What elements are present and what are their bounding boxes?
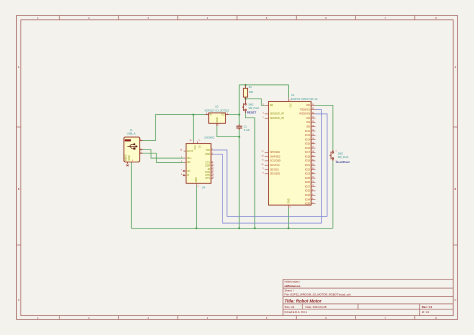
svg-text:VO: VO bbox=[221, 115, 225, 117]
svg-text:7: 7 bbox=[312, 202, 313, 204]
svg-text:Date: 2024-04-28: Date: 2024-04-28 bbox=[306, 305, 327, 309]
svg-text:SCK/CLK: SCK/CLK bbox=[270, 165, 280, 167]
svg-text:U2: U2 bbox=[215, 105, 219, 109]
wire USB D- to CH340C UD+ bbox=[143, 150, 184, 158]
svg-text:16: 16 bbox=[190, 140, 192, 142]
svg-text:14: 14 bbox=[212, 177, 214, 179]
svg-text:4: 4 bbox=[263, 113, 264, 115]
svg-text:10: 10 bbox=[262, 164, 264, 166]
svg-text:5: 5 bbox=[181, 157, 182, 159]
svg-text:GND: GND bbox=[288, 198, 290, 203]
svg-text:USB_A: USB_A bbox=[127, 132, 136, 136]
svg-text:XI: XI bbox=[187, 175, 190, 177]
svg-text:1: 1 bbox=[218, 125, 219, 127]
svg-text:IO15: IO15 bbox=[305, 144, 311, 146]
svg-text:0.1uF: 0.1uF bbox=[244, 129, 251, 132]
svg-text:26: 26 bbox=[312, 121, 314, 123]
title block bbox=[283, 279, 453, 315]
svg-text:3: 3 bbox=[263, 104, 264, 106]
svg-text:18: 18 bbox=[180, 150, 182, 152]
svg-text:IO18: IO18 bbox=[305, 157, 311, 159]
svg-text:Sheet: /: Sheet: / bbox=[285, 289, 295, 293]
svg-text:IO22: IO22 bbox=[305, 169, 311, 171]
svg-text:SENSOR_VP: SENSOR_VP bbox=[270, 114, 285, 116]
svg-text:31: 31 bbox=[312, 160, 314, 162]
svg-text:Title: Robot Motor: Title: Robot Motor bbox=[285, 299, 322, 304]
wire EN net jog to ESP32 bbox=[246, 99, 265, 106]
svg-text:33: 33 bbox=[312, 164, 314, 166]
svg-text:GND: GND bbox=[129, 155, 131, 160]
module U1 ESP32-WROOM-32 bbox=[262, 93, 318, 209]
svg-text:DSR: DSR bbox=[205, 166, 210, 168]
svg-text:IO19: IO19 bbox=[305, 161, 311, 163]
push button SW1 RESET bbox=[242, 99, 260, 115]
svg-text:37: 37 bbox=[312, 172, 314, 174]
svg-text:IO27: IO27 bbox=[305, 186, 311, 188]
wire boot switch to ground rail bbox=[332, 161, 334, 228]
svg-text:1: 1 bbox=[140, 139, 141, 141]
svg-text:KiCad E.D.A. 8.0.1: KiCad E.D.A. 8.0.1 bbox=[285, 310, 308, 314]
wire C1 bottom to ground rail bbox=[238, 129, 240, 229]
svg-text:initial project: initial project bbox=[285, 280, 300, 284]
svg-text:SWP/SD3: SWP/SD3 bbox=[270, 157, 281, 159]
wire IO0 to boot switch bbox=[315, 105, 333, 150]
svg-text:2: 2 bbox=[227, 113, 228, 115]
svg-text:11: 11 bbox=[312, 181, 314, 183]
svg-text:5: 5 bbox=[263, 117, 264, 119]
svg-text:6: 6 bbox=[181, 161, 182, 163]
svg-text:10: 10 bbox=[312, 177, 314, 179]
svg-text:uMamesse: uMamesse bbox=[285, 284, 301, 288]
push button SW2 Boot/Flash bbox=[330, 150, 351, 164]
svg-text:30: 30 bbox=[312, 155, 314, 157]
svg-text:UD+: UD+ bbox=[187, 158, 192, 160]
svg-text:8: 8 bbox=[312, 190, 313, 192]
svg-text:IO23: IO23 bbox=[305, 174, 311, 176]
svg-text:1: 1 bbox=[336, 151, 337, 153]
svg-text:9: 9 bbox=[212, 161, 213, 163]
svg-text:2: 2 bbox=[140, 152, 141, 154]
svg-text:J1: J1 bbox=[130, 128, 133, 132]
wire UART CH340C TXD to ESP32 RXD0 (blue) bbox=[213, 114, 327, 216]
svg-text:3: 3 bbox=[206, 113, 207, 115]
svg-text:16: 16 bbox=[312, 134, 314, 136]
capacitor C1 0.1uF bbox=[236, 125, 250, 132]
wire CH340C GND down bbox=[195, 186, 197, 229]
svg-text:Boot/Flash: Boot/Flash bbox=[336, 160, 350, 164]
wire VBUS from J1 to regulator input bbox=[143, 115, 206, 141]
svg-text:ESP32-WROOM-32: ESP32-WROOM-32 bbox=[291, 97, 318, 101]
svg-text:U1: U1 bbox=[291, 93, 295, 97]
wire regulator output to 3V3 bbox=[229, 114, 239, 116]
svg-text:IO34: IO34 bbox=[305, 199, 311, 201]
IC U4 CH340C USB-UART bbox=[180, 136, 215, 190]
svg-text:IO16: IO16 bbox=[305, 148, 311, 150]
wire junctions bbox=[192, 84, 289, 229]
svg-text:RI: RI bbox=[208, 169, 211, 171]
svg-text:SW2: SW2 bbox=[338, 153, 344, 156]
svg-text:RESET: RESET bbox=[247, 111, 257, 115]
svg-text:24: 24 bbox=[312, 117, 314, 119]
svg-text:13: 13 bbox=[212, 174, 214, 176]
svg-text:10: 10 bbox=[212, 165, 214, 167]
svg-text:IO35: IO35 bbox=[305, 204, 311, 206]
svg-text:VI: VI bbox=[210, 115, 213, 117]
svg-text:File: ESP32_WROOM_S3_MOTOR_ROB: File: ESP32_WROOM_S3_MOTOR_ROBOT.kicad_s… bbox=[285, 293, 352, 297]
svg-text:SDI/SD1: SDI/SD1 bbox=[270, 169, 280, 171]
svg-text:IO25: IO25 bbox=[305, 178, 311, 180]
svg-text:TXD: TXD bbox=[205, 150, 210, 152]
wire J1 GND down bbox=[130, 162, 132, 228]
svg-text:UD-: UD- bbox=[187, 162, 191, 164]
svg-text:Size: A4: Size: A4 bbox=[285, 305, 295, 309]
svg-text:35: 35 bbox=[312, 108, 314, 110]
svg-text:SW_Push: SW_Push bbox=[338, 156, 349, 159]
svg-text:CH340C: CH340C bbox=[204, 136, 214, 140]
svg-text:14: 14 bbox=[312, 130, 314, 132]
svg-text:3: 3 bbox=[140, 148, 141, 150]
svg-text:EN: EN bbox=[270, 105, 274, 107]
svg-text:3: 3 bbox=[212, 153, 213, 155]
svg-text:12: 12 bbox=[312, 185, 314, 187]
wire ground rail bbox=[131, 227, 333, 229]
svg-text:9: 9 bbox=[199, 140, 200, 142]
svg-text:17: 17 bbox=[262, 151, 264, 153]
svg-text:SCS/CMD: SCS/CMD bbox=[270, 161, 281, 163]
svg-text:Id: 1/1: Id: 1/1 bbox=[422, 310, 430, 314]
svg-text:IO32: IO32 bbox=[305, 191, 311, 193]
svg-text:TXD0/IO1: TXD0/IO1 bbox=[300, 109, 311, 111]
svg-text:13: 13 bbox=[312, 138, 314, 140]
svg-text:IO21: IO21 bbox=[305, 165, 311, 167]
svg-text:DCD: DCD bbox=[205, 172, 210, 174]
svg-text:IO14: IO14 bbox=[305, 139, 311, 141]
wire VCC drop to CH340C bbox=[192, 115, 194, 142]
svg-text:9: 9 bbox=[312, 194, 313, 196]
svg-text:5: 5 bbox=[125, 160, 126, 162]
svg-text:10R: 10R bbox=[249, 91, 254, 94]
svg-text:IO33: IO33 bbox=[305, 195, 311, 197]
svg-text:SDO/SD0: SDO/SD0 bbox=[270, 174, 281, 176]
svg-text:8: 8 bbox=[181, 174, 182, 176]
svg-text:2: 2 bbox=[212, 149, 213, 151]
svg-text:VCC: VCC bbox=[193, 145, 195, 150]
svg-text:CTS: CTS bbox=[205, 163, 210, 165]
svg-text:RXD: RXD bbox=[205, 154, 210, 156]
svg-text:6: 6 bbox=[312, 198, 313, 200]
wire RESET net bbox=[246, 113, 255, 228]
svg-text:29: 29 bbox=[312, 125, 314, 127]
svg-text:18: 18 bbox=[262, 155, 264, 157]
svg-text:NCP1117-3.3_SOT223: NCP1117-3.3_SOT223 bbox=[205, 109, 230, 112]
wire 3V3 top rail to ESP32 bbox=[239, 85, 288, 98]
wire ESP32 GND down bbox=[288, 208, 290, 228]
svg-text:25: 25 bbox=[312, 104, 314, 106]
svg-text:28: 28 bbox=[312, 151, 314, 153]
svg-text:Rev: 1.0: Rev: 1.0 bbox=[422, 305, 433, 309]
svg-text:36: 36 bbox=[312, 168, 314, 170]
svg-text:SHD/SD2: SHD/SD2 bbox=[270, 152, 281, 154]
wire regulator GND bbox=[217, 126, 239, 137]
svg-text:SENSOR_VN: SENSOR_VN bbox=[270, 118, 285, 120]
svg-text:3V3: 3V3 bbox=[288, 103, 290, 108]
wire UART CH340C RXD to ESP32 TXD0 (blue) bbox=[213, 110, 321, 224]
wire 3V3 vertical to C1 bbox=[238, 85, 240, 126]
regulator U2 NCP1117-3.3 bbox=[205, 105, 230, 127]
svg-text:ACT#: ACT# bbox=[187, 150, 194, 153]
svg-text:RTS: RTS bbox=[206, 178, 211, 180]
svg-text:1: 1 bbox=[290, 207, 291, 209]
svg-text:11: 11 bbox=[262, 160, 264, 162]
svg-text:11: 11 bbox=[212, 168, 214, 170]
svg-text:9: 9 bbox=[263, 168, 264, 170]
connector J1 USB_A bbox=[124, 128, 143, 166]
svg-text:IO13: IO13 bbox=[305, 135, 311, 137]
svg-text:RXD0/IO3: RXD0/IO3 bbox=[299, 114, 310, 116]
svg-text:7: 7 bbox=[181, 170, 182, 172]
svg-text:IO26: IO26 bbox=[305, 182, 311, 184]
wire USB D+ to CH340C UD- bbox=[143, 153, 184, 162]
svg-text:27: 27 bbox=[312, 147, 314, 149]
svg-text:U4: U4 bbox=[202, 185, 206, 189]
svg-text:8: 8 bbox=[263, 172, 264, 174]
svg-text:1: 1 bbox=[198, 186, 199, 188]
svg-text:4: 4 bbox=[132, 160, 133, 162]
resistor R1 10R bbox=[243, 85, 253, 99]
svg-text:IO17: IO17 bbox=[305, 152, 311, 154]
svg-text:IO12: IO12 bbox=[305, 131, 311, 133]
svg-text:XO: XO bbox=[187, 171, 191, 173]
svg-text:GND: GND bbox=[196, 177, 198, 182]
svg-text:DTR: DTR bbox=[205, 175, 210, 177]
svg-text:34: 34 bbox=[312, 113, 314, 115]
svg-text:23: 23 bbox=[312, 142, 314, 144]
svg-text:12: 12 bbox=[212, 171, 214, 173]
svg-text:GND: GND bbox=[217, 117, 219, 122]
